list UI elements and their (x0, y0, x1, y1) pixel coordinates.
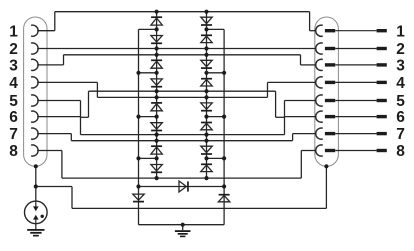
svg-text:7: 7 (396, 126, 405, 143)
suppressor diode right col cell1 upper (cathode down) (201, 17, 212, 23)
junction right col @ M3 (204, 115, 208, 119)
suppressor diode left col cell3 lower (cathode down) (151, 123, 162, 129)
shield branch to earth line (36, 186, 72, 188)
junction earth bus (181, 223, 185, 227)
junction left col @ T3 (155, 95, 159, 99)
right connector capsule (315, 17, 339, 166)
suppressor diode right col cell1 lower (cathode up) (201, 34, 212, 36)
wire: T4 line (pin 7 net) (71, 140, 292, 142)
G1 top electrode arrow (35, 201, 37, 206)
svg-text:4: 4 (9, 75, 18, 92)
terminal dash pin 4 (right) (377, 81, 387, 84)
junction left col @ M2 (155, 71, 159, 75)
left contact pin 1 (31, 25, 38, 36)
wire: pin 7 left jog (37, 133, 71, 135)
svg-text:8: 8 (9, 143, 18, 160)
junction left col @ T4 (155, 139, 159, 143)
terminal dash pin 1 (right) (377, 29, 387, 32)
junction left col @ M1 (155, 27, 159, 31)
shield earth line (72, 207, 326, 209)
junction left col @ B3 (155, 133, 159, 137)
junction right shield apex (324, 164, 328, 168)
right mid branch M1 (207, 28, 225, 30)
junction right col @ bottom rail (204, 176, 208, 180)
G1 gas-filled dot (41, 215, 44, 218)
suppressor diode right col cell4 upper (cathode down) (201, 146, 212, 152)
svg-text:1: 1 (9, 23, 18, 40)
wire: B2 line (pin 5 net) (89, 90, 276, 92)
terminal dash pin 3 (right) (377, 63, 387, 66)
junction right col @ top rail (204, 10, 208, 14)
wire pin 2 to terminal (335, 48, 376, 50)
junction right col @ M4 (204, 156, 208, 160)
left contact pin 3 (31, 59, 38, 70)
svg-text:1: 1 (396, 23, 405, 40)
wire: pin 7 right jog (292, 134, 294, 141)
wire: pin 5 right detour (275, 91, 277, 117)
right mid stub M3 (207, 116, 225, 118)
right pin 6 male pin bar (325, 115, 335, 118)
suppressor diode left col cell1 upper (cathode up) (151, 16, 162, 18)
left contact pin 4 (31, 77, 38, 88)
svg-text:5: 5 (396, 93, 405, 110)
wire: top rail (pin 1 net) (55, 11, 310, 13)
right mid stub M4 (207, 157, 225, 159)
wire pin 1 to terminal (335, 30, 376, 32)
junction right col @ T3 (204, 95, 208, 99)
left diode column line (156, 12, 158, 178)
junction left common @ M4 (136, 156, 140, 160)
left capsule shield stem (35, 166, 37, 201)
terminal dash pin 2 (right) (377, 47, 387, 50)
left common vertical (138, 29, 140, 224)
left mid stub M2 (139, 72, 157, 74)
right diode column line (206, 12, 208, 178)
terminal dash pin 6 (right) (377, 115, 387, 118)
junction left col @ T2 (155, 53, 159, 57)
wire: B3 line (pin 6 net) (81, 134, 285, 136)
right pin 1 male pin bar (325, 29, 335, 32)
right common vertical (223, 29, 225, 224)
wire: pin 1 right riser (309, 12, 311, 31)
junction right col @ M1 (204, 27, 208, 31)
right contact pin 7 (316, 128, 323, 139)
wire: pin 3 right jog (300, 55, 302, 65)
junction left col @ bottom rail (155, 176, 159, 180)
wire: pin 5 left detour (37, 100, 80, 102)
left contact pin 7 (31, 128, 38, 139)
junction left common @ diode line (136, 184, 140, 188)
junction shield branch (34, 184, 38, 188)
svg-text:2: 2 (396, 41, 405, 58)
wire pin 7 to terminal (335, 133, 376, 135)
wire pin 5 to terminal (335, 100, 376, 102)
suppressor diode right col cell2 lower (cathode up) (201, 78, 212, 80)
suppressor diode left col cell1 lower (cathode down) (151, 36, 162, 42)
junction right common @ M2 (222, 71, 226, 75)
junction left col @ row2 (155, 46, 159, 50)
svg-text:3: 3 (9, 58, 18, 75)
junction right common @ M3 (222, 115, 226, 119)
junction right common @ diode line (222, 184, 226, 188)
right contact pin 8 (316, 145, 323, 156)
right pin 3 male pin bar (325, 63, 335, 66)
wire: pin 8 left jog (37, 150, 62, 152)
left connector capsule (24, 17, 47, 166)
svg-text:5: 5 (9, 93, 18, 110)
wire: pin 1 left riser (37, 30, 55, 32)
right contact pin 6 (316, 111, 323, 122)
suppressor diode left col cell2 lower (cathode down) (151, 79, 162, 85)
svg-text:3: 3 (396, 58, 405, 75)
junction left common @ M3 (136, 115, 140, 119)
svg-text:8: 8 (396, 143, 405, 160)
svg-text:6: 6 (9, 109, 18, 126)
suppressor diode right col cell3 lower (cathode up) (201, 122, 212, 124)
wire: pin 3 left jog (37, 64, 63, 66)
wire: bottom rail (pin 8 net) (62, 177, 301, 179)
suppressor diode left col cell3 upper (cathode up) (151, 102, 162, 104)
right contact pin 3 (316, 59, 323, 70)
suppressor diode left col cell2 upper (cathode up) (151, 59, 162, 61)
junction right col @ B3 (204, 133, 208, 137)
right mid stub M2 (207, 72, 225, 74)
junction right col @ B2 (204, 89, 208, 93)
left contact pin 8 (31, 145, 38, 156)
diode line between commons (139, 186, 225, 188)
right contact pin 1 (316, 25, 323, 36)
left mid branch M1 (139, 28, 157, 30)
junction left col @ B2 (155, 89, 159, 93)
junction left col @ top rail (155, 10, 159, 14)
wire: pin 4 left jog (37, 81, 97, 83)
wire: row 2 straight (pin 2 net) (37, 48, 316, 50)
right pin 8 male pin bar (325, 149, 335, 152)
left contact pin 2 (31, 43, 38, 54)
right pin 5 male pin bar (325, 99, 335, 102)
junction left col @ M4 (155, 156, 159, 160)
right pin 7 male pin bar (325, 132, 335, 135)
junction right col @ T4 (204, 139, 208, 143)
junction left col @ M3 (155, 115, 159, 119)
right contact pin 4 (316, 77, 323, 88)
wire pin 8 to terminal (335, 150, 376, 152)
left mid stub M4 (139, 157, 157, 159)
suppressor diode right col cell3 upper (cathode down) (201, 103, 212, 109)
svg-text:6: 6 (396, 109, 405, 126)
wire pin 6 to terminal (335, 116, 376, 118)
left bottom diode (cathode down) (133, 194, 144, 200)
series diode D (points right) (179, 181, 186, 192)
wire: T3 line (pin 4 net) (97, 96, 267, 98)
right contact pin 2 (316, 43, 323, 54)
suppressor diode left col cell4 lower (cathode down) (151, 165, 162, 171)
svg-text:4: 4 (396, 75, 405, 92)
junction left common @ M2 (136, 71, 140, 75)
right pin 2 male pin bar (325, 47, 335, 50)
right pin 4 male pin bar (325, 81, 335, 84)
svg-text:2: 2 (9, 41, 18, 58)
junction right col @ T2 (204, 53, 208, 57)
terminal dash pin 5 (right) (377, 99, 387, 102)
junction right col @ row2 (204, 46, 208, 50)
suppressor diode right col cell4 lower (cathode up) (201, 163, 212, 165)
wire: pin 8 right jog (300, 151, 302, 179)
bottom bus (139, 224, 225, 226)
right bottom diode (cathode up) (219, 194, 230, 196)
left mid stub M3 (139, 116, 157, 118)
suppressor diode right col cell2 upper (cathode down) (201, 60, 212, 66)
left contact pin 6 (31, 111, 38, 122)
wire: pin 4 right jog (267, 82, 269, 97)
terminal dash pin 8 (right) (377, 149, 387, 152)
wire pin 3 to terminal (335, 64, 376, 66)
junction left shield apex (34, 164, 38, 168)
svg-text:7: 7 (9, 126, 18, 143)
G1 bottom electrode arrow (35, 220, 37, 224)
left contact pin 5 (31, 95, 38, 106)
center earth ground (182, 225, 184, 231)
wire: T2 line (pin 3 net) (64, 54, 301, 56)
wire: pin 6 right jog (284, 117, 286, 135)
junction right col @ M2 (204, 71, 208, 75)
junction right common @ M4 (222, 156, 226, 160)
right contact pin 5 (316, 95, 323, 106)
terminal dash pin 7 (right) (377, 132, 387, 135)
right capsule shield stem (325, 166, 327, 208)
left earth ground (35, 224, 37, 229)
wire pin 4 to terminal (335, 81, 376, 83)
gas discharge tube G1 (25, 201, 48, 224)
suppressor diode left col cell4 upper (cathode up) (151, 145, 162, 147)
wire: pin 6 left jog (37, 116, 80, 118)
